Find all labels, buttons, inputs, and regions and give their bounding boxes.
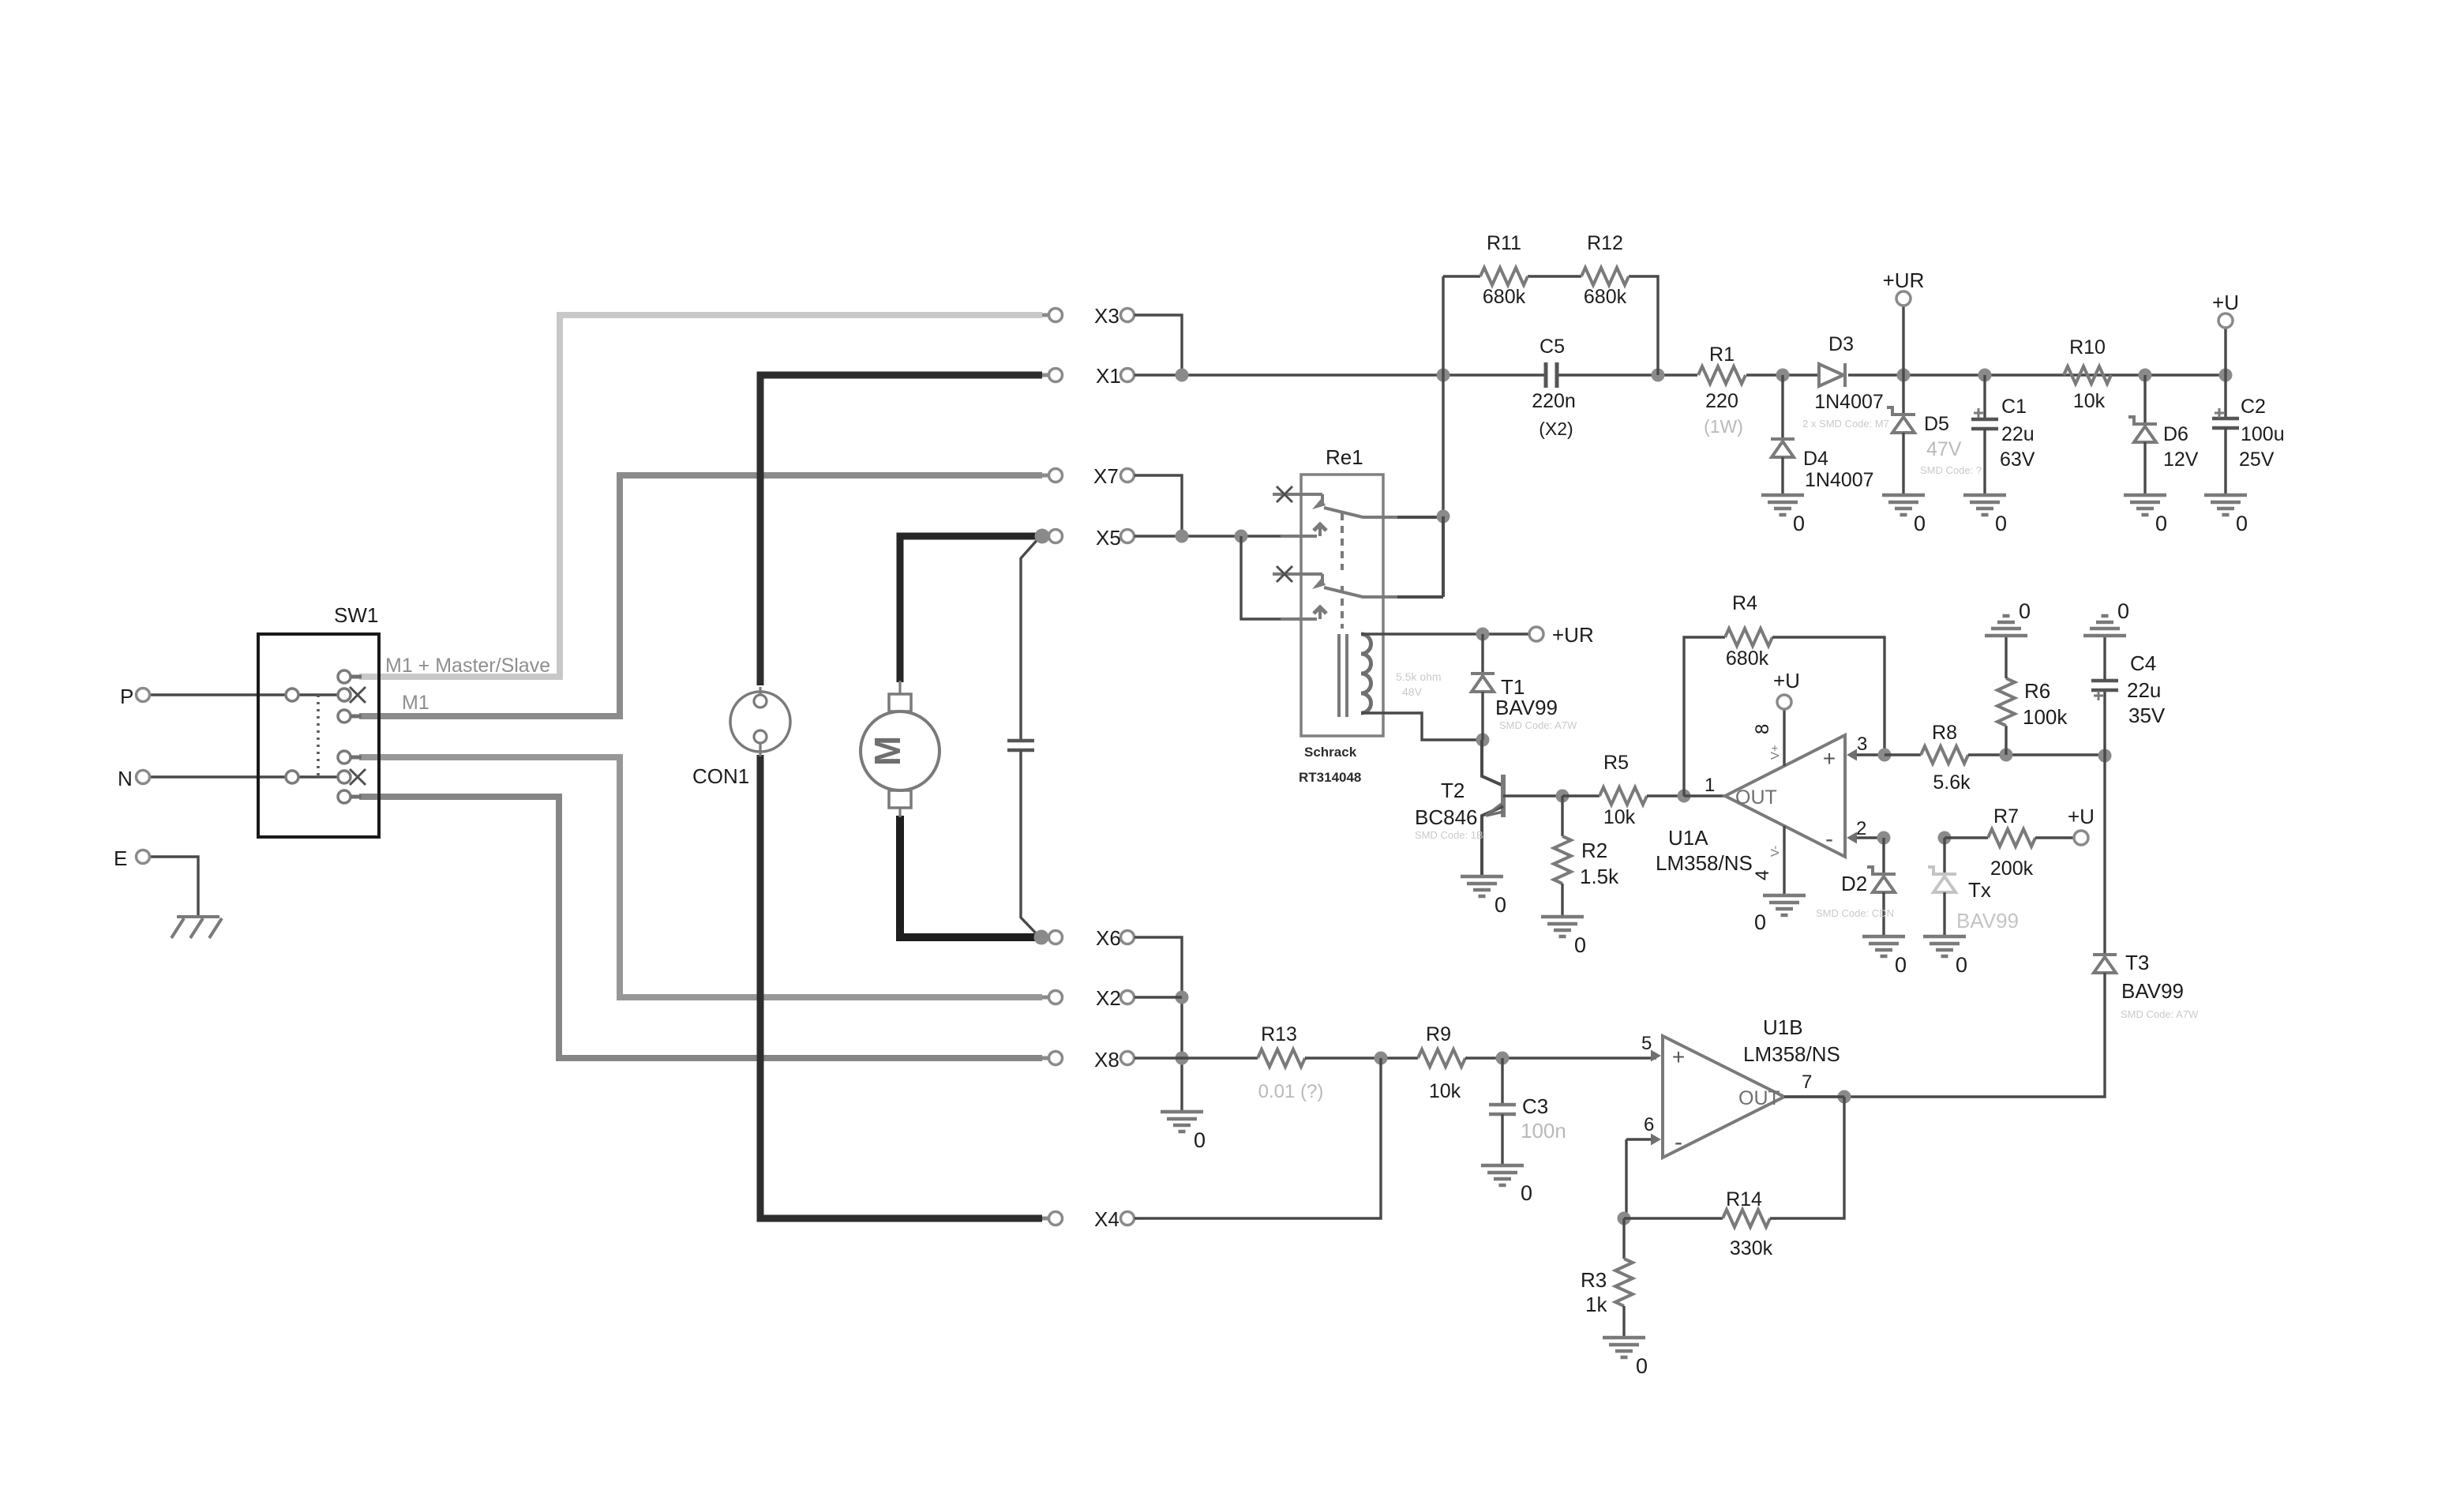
svg-text:C3: C3 [1522, 1094, 1548, 1118]
svg-text:0: 0 [1194, 1128, 1206, 1152]
wire X7 to X5 node [1134, 475, 1182, 536]
terminal circle at y=1340 [1121, 1052, 1134, 1065]
svg-text:X2: X2 [1096, 986, 1121, 1010]
svg-text:BAV99: BAV99 [2121, 979, 2184, 1003]
svg-text:R5: R5 [1603, 752, 1629, 774]
junction blade1 output [1437, 510, 1450, 524]
svg-text:R1: R1 [1709, 343, 1735, 366]
+UR port near relay [1529, 627, 1543, 641]
svg-text:0: 0 [1995, 512, 2007, 535]
svg-text:(1W): (1W) [1704, 416, 1743, 437]
capacitor C5 [1544, 362, 1548, 388]
zener D6 12V [2143, 375, 2146, 424]
port X3 [1042, 313, 1050, 317]
svg-text:100n: 100n [1521, 1119, 1566, 1143]
svg-text:(X2): (X2) [1539, 418, 1573, 439]
resistor R13 [1258, 1049, 1305, 1067]
U1B pin5 arrow [1651, 1050, 1661, 1062]
wire X8 row [1134, 1057, 1258, 1059]
U1A pin3 wire [1851, 753, 1885, 756]
svg-text:2 x SMD Code: M7: 2 x SMD Code: M7 [1802, 418, 1889, 430]
SW1 X mark P row [350, 687, 366, 703]
svg-text:RT314048: RT314048 [1299, 770, 1361, 785]
svg-text:Re1: Re1 [1326, 445, 1363, 469]
relay contact 2 (NC, crossed) [1273, 572, 1322, 576]
svg-text:220: 220 [1705, 390, 1738, 412]
svg-text:R4: R4 [1732, 592, 1757, 614]
svg-text:CON1: CON1 [692, 764, 749, 788]
ground below T2 [1461, 875, 1503, 879]
svg-text:0: 0 [1754, 910, 1766, 934]
capacitor C2 100u/25V [2224, 375, 2226, 418]
svg-text:P: P [120, 685, 133, 708]
terminal P [149, 693, 338, 696]
switch SW1 box [258, 634, 379, 837]
SW1 mechanical link (dotted) [317, 695, 320, 777]
svg-text:D2: D2 [1841, 872, 1867, 895]
svg-text:0: 0 [1914, 512, 1926, 535]
wire X1 main row [1134, 373, 1544, 376]
svg-text:5.6k: 5.6k [1933, 771, 1971, 794]
wire capacitor to X6 node [1021, 750, 1040, 937]
SW1 pole circle N [286, 771, 298, 783]
motor M [898, 681, 901, 694]
svg-text:0: 0 [2155, 512, 2167, 535]
U1B pin6 wire [1626, 1138, 1651, 1140]
svg-text:0: 0 [1495, 893, 1506, 917]
wire R5 to U1A output [1684, 794, 1725, 797]
svg-text:Schrack: Schrack [1304, 745, 1357, 760]
SW1 pole circle P [286, 689, 298, 701]
svg-text:V+: V+ [1768, 745, 1782, 760]
svg-text:BC846: BC846 [1415, 805, 1478, 829]
svg-text:220n: 220n [1532, 390, 1576, 412]
junction R3/R14/pin6 [1618, 1212, 1631, 1225]
relay coil [1361, 634, 1371, 713]
svg-text:BAV99: BAV99 [1956, 909, 2019, 933]
relay pole arrow 1 [1281, 535, 1317, 538]
wire to R11/R12 loop [1443, 275, 1480, 277]
svg-text:0: 0 [1793, 512, 1805, 535]
svg-text:330k: 330k [1730, 1237, 1773, 1259]
wire X5 node down to relay pole 2 [1241, 536, 1281, 619]
wire motor to X6 (black cable) [900, 816, 1038, 937]
svg-text:+U: +U [2212, 291, 2239, 314]
earth ground symbol [177, 915, 219, 918]
svg-text:+UR: +UR [1883, 268, 1925, 292]
wire SW1 to X2 (grey cable) [359, 757, 1042, 997]
svg-text:R7: R7 [1993, 805, 2019, 828]
wire blade2 to blade1 junction [1397, 595, 1443, 599]
svg-text:1N4007: 1N4007 [1805, 469, 1874, 491]
terminal circle at y=679 [1121, 530, 1134, 543]
svg-text:OUT: OUT [1738, 1087, 1780, 1109]
svg-text:SMD Code: 1B: SMD Code: 1B [1415, 829, 1483, 841]
relay mechanical link dashed [1341, 513, 1344, 570]
svg-text:7: 7 [1802, 1072, 1812, 1093]
svg-text:2: 2 [1856, 818, 1866, 839]
svg-text:1.5k: 1.5k [1580, 865, 1619, 888]
svg-text:N: N [118, 767, 133, 790]
svg-text:R11: R11 [1487, 232, 1521, 254]
ground below C3 [1481, 1164, 1524, 1168]
wire motor to X5 (black cable) [900, 536, 1039, 682]
svg-text:X8: X8 [1094, 1048, 1119, 1072]
svg-text:T2: T2 [1441, 779, 1465, 802]
ground below Tx [1923, 935, 1966, 939]
svg-text:Tx: Tx [1968, 878, 1991, 902]
relay coil core [1337, 634, 1341, 717]
resistor R2 1.5k [1561, 796, 1563, 836]
svg-text:SMD Code: A7W: SMD Code: A7W [1499, 719, 1577, 731]
svg-text:10k: 10k [1429, 1080, 1461, 1102]
relay blade 2 [1324, 587, 1397, 597]
svg-text:3: 3 [1857, 734, 1867, 755]
svg-text:D5: D5 [1924, 413, 1949, 435]
svg-text:0: 0 [1895, 953, 1907, 977]
capacitor C3 100n [1501, 1058, 1503, 1105]
svg-text:8: 8 [1752, 724, 1773, 734]
svg-text:BAV99: BAV99 [1495, 696, 1558, 719]
svg-text:5: 5 [1641, 1033, 1652, 1054]
svg-text:R3: R3 [1581, 1268, 1607, 1292]
U1A pin2 wire [1851, 836, 1884, 839]
wire X4 up to R13/R9 node [1134, 1058, 1381, 1218]
svg-text:4: 4 [1752, 870, 1773, 880]
svg-text:R6: R6 [2024, 679, 2050, 703]
resistor R7 200k [1938, 831, 1952, 845]
wire C4 node down through T3 to U1B output [2103, 756, 2106, 955]
svg-text:-: - [1825, 826, 1833, 852]
resistor R1 [1698, 366, 1746, 384]
svg-text:0: 0 [1636, 1354, 1648, 1378]
svg-text:+: + [1823, 746, 1836, 771]
svg-text:X7: X7 [1093, 464, 1119, 488]
resistor R10 [2064, 366, 2111, 384]
wire X6 to X2/X8 link [1134, 937, 1182, 1112]
svg-text:R8: R8 [1932, 722, 1957, 744]
svg-text:35V: 35V [2128, 704, 2166, 727]
svg-text:LM358/NS: LM358/NS [1656, 851, 1753, 875]
terminal circle at y=1187 [1121, 931, 1134, 944]
diode Tx (optional, light grey) [1943, 838, 1945, 874]
svg-text:100k: 100k [2023, 705, 2068, 729]
svg-text:C2: C2 [2241, 396, 2266, 418]
svg-text:SMD Code: ?: SMD Code: ? [1920, 464, 1982, 476]
svg-text:SMD Code: CDN: SMD Code: CDN [1816, 907, 1894, 919]
contact stubs to cable wires [351, 675, 362, 679]
svg-text:680k: 680k [1584, 286, 1627, 308]
svg-text:+: + [1672, 1045, 1685, 1069]
terminal N [149, 775, 338, 778]
svg-text:V-: V- [1768, 846, 1782, 857]
svg-text:M1 + Master/Slave: M1 + Master/Slave [385, 655, 550, 677]
svg-text:0.01 (?): 0.01 (?) [1258, 1081, 1324, 1102]
svg-text:22u: 22u [2127, 678, 2161, 702]
svg-text:0: 0 [2236, 512, 2248, 535]
wire X5 node to capacitor [1021, 536, 1041, 741]
relay pole arrow 2 [1281, 617, 1317, 621]
svg-text:25V: 25V [2239, 448, 2275, 471]
svg-text:R14: R14 [1726, 1188, 1762, 1210]
ground below D2 [1862, 935, 1905, 939]
wire SW1 to X8 (grey cable) [359, 797, 1042, 1058]
resistor R5 10k [1562, 794, 1600, 797]
svg-text:0: 0 [2117, 599, 2129, 623]
svg-text:0: 0 [1574, 933, 1586, 957]
relay contact 1 (NC, crossed) [1273, 493, 1322, 496]
zener D5 [1902, 375, 1904, 415]
svg-text:X4: X4 [1094, 1207, 1119, 1231]
svg-text:1k: 1k [1585, 1293, 1607, 1316]
wire M1 (grey cable from SW1 to X7) [359, 475, 1042, 716]
wire M1 + Master/Slave (light grey cable from SW1 to X3) [359, 315, 1042, 677]
diode D4 1N4007 [1781, 375, 1783, 439]
resistor R8 5.6k [1885, 753, 1921, 756]
terminal circle at y=399 [1121, 309, 1134, 322]
port X7 [1042, 474, 1050, 478]
U1A pin 4 ground [1783, 826, 1785, 895]
svg-text:0: 0 [1956, 953, 1967, 977]
resistor R11 [1480, 268, 1528, 285]
svg-text:100u: 100u [2241, 423, 2285, 445]
wire X3 to X1 node [1134, 315, 1182, 375]
vertical from R11 loop through X1 row to relay [1442, 276, 1444, 516]
resistor R14 330k [1624, 1217, 1723, 1219]
svg-text:R13: R13 [1261, 1023, 1297, 1045]
svg-text:SW1: SW1 [334, 603, 378, 627]
ground below R3 [1603, 1336, 1645, 1340]
svg-text:C5: C5 [1540, 336, 1565, 358]
connector CON1 [730, 692, 790, 752]
port X2 [1042, 996, 1050, 1000]
svg-text:1N4007: 1N4007 [1814, 391, 1884, 413]
junction dots on main row [1176, 369, 1189, 382]
svg-text:R2: R2 [1581, 839, 1607, 862]
wire X2 row stub [1134, 996, 1182, 998]
terminal circle at y=602 [1121, 469, 1134, 482]
svg-text:X3: X3 [1094, 304, 1119, 328]
svg-text:10k: 10k [1603, 806, 1636, 828]
svg-text:+UR: +UR [1552, 623, 1594, 647]
svg-text:+U: +U [2068, 805, 2095, 828]
svg-text:D4: D4 [1803, 448, 1828, 470]
resistor R3 1k [1622, 1218, 1625, 1259]
+U supply port [2224, 328, 2226, 375]
relay blade 1 [1324, 508, 1397, 517]
terminal E [149, 857, 198, 917]
svg-text:D6: D6 [2163, 423, 2188, 445]
resistor R4 680k [1684, 637, 1725, 796]
svg-text:U1B: U1B [1763, 1015, 1803, 1039]
svg-text:E: E [114, 846, 127, 870]
svg-text:0: 0 [2019, 599, 2031, 623]
svg-text:680k: 680k [1483, 286, 1526, 308]
wire X5 row to relay [1134, 535, 1281, 537]
U1A pin 8 +U [1783, 708, 1785, 766]
svg-text:680k: 680k [1726, 647, 1769, 670]
svg-text:R12: R12 [1587, 232, 1623, 254]
svg-text:U1A: U1A [1668, 826, 1708, 850]
wire CON1 to X4 (black cable) [760, 755, 1042, 1218]
wire coil top to +UR [1361, 632, 1529, 635]
ground below X8 link [1161, 1110, 1203, 1114]
ground below C2 [2204, 494, 2247, 497]
inverted ground above C4 [2083, 634, 2126, 638]
capacitor C4 22u/35V [2103, 690, 2106, 756]
svg-text:+U: +U [1773, 669, 1800, 692]
ground below C1 [1963, 494, 2006, 497]
wire CON1 to X1 (black cable) [760, 375, 1042, 685]
svg-text:R9: R9 [1426, 1023, 1451, 1045]
svg-text:X5: X5 [1096, 526, 1121, 550]
svg-text:22u: 22u [2001, 423, 2035, 445]
svg-text:OUT: OUT [1735, 786, 1777, 809]
port X1 [1042, 373, 1050, 377]
svg-text:48V: 48V [1402, 685, 1423, 698]
port X8 [1042, 1057, 1050, 1060]
svg-text:D3: D3 [1828, 333, 1854, 355]
svg-text:47V: 47V [1926, 438, 1962, 460]
svg-text:5.5k ohm: 5.5k ohm [1396, 670, 1442, 683]
ground below D6 [2124, 494, 2166, 497]
ground below D5 [1882, 494, 1925, 497]
SW1 contact circles [338, 670, 351, 683]
svg-text:C1: C1 [2001, 396, 2027, 418]
+U port right of R7 [2074, 831, 2088, 845]
SW1 X mark N row [350, 769, 366, 785]
svg-text:63V: 63V [2000, 448, 2035, 471]
svg-text:0: 0 [1521, 1181, 1532, 1205]
svg-text:6: 6 [1644, 1114, 1654, 1135]
diode D3 1N4007 [1843, 363, 1847, 387]
op-amp U1A LM358/NS [1725, 735, 1845, 857]
svg-text:10k: 10k [2073, 390, 2106, 412]
ground below D4 [1761, 494, 1804, 497]
motor capacitor [1007, 739, 1034, 743]
svg-text:1: 1 [1705, 775, 1715, 796]
wire coil bottom to T1 bottom node [1361, 713, 1483, 740]
terminal circle at y=1543 [1121, 1212, 1134, 1225]
op-amp U1B LM358/NS [1663, 1036, 1784, 1158]
inverted ground above R6 [1985, 634, 2027, 638]
svg-text:M: M [867, 736, 908, 766]
U1B output wire [1784, 1095, 1844, 1098]
svg-text:X6: X6 [1096, 926, 1121, 950]
port X4 [1042, 1217, 1050, 1221]
svg-text:LM358/NS: LM358/NS [1743, 1042, 1840, 1066]
terminal circle at y=1263 [1121, 991, 1134, 1004]
resistor R9 10k [1418, 1049, 1465, 1067]
ground below R2 [1541, 915, 1584, 919]
resistor R6 100k [2005, 726, 2007, 755]
capacitor C1 22u/63V [1983, 375, 1986, 419]
relay Re1 box [1301, 475, 1383, 736]
port X6 [1034, 930, 1049, 945]
svg-text:R10: R10 [2069, 336, 2106, 358]
transistor T2 BC846 [1482, 740, 1503, 786]
svg-text:M1: M1 [402, 692, 429, 714]
+UR supply port [1902, 306, 1904, 375]
svg-text:X1: X1 [1096, 364, 1121, 388]
svg-text:SMD Code: A7W: SMD Code: A7W [2121, 1008, 2199, 1020]
port X5 [1035, 529, 1050, 544]
svg-text:C4: C4 [2130, 651, 2156, 675]
zener D2 [1882, 838, 1885, 874]
svg-text:-: - [1675, 1129, 1682, 1155]
wire T2 base to R5 node [1503, 794, 1562, 797]
resistor R12 [1581, 268, 1629, 285]
svg-text:200k: 200k [1990, 858, 2034, 880]
svg-text:T3: T3 [2125, 951, 2149, 974]
diode T1 BAV99 [1481, 634, 1483, 674]
svg-text:12V: 12V [2163, 448, 2199, 471]
terminal circle at y=475 [1121, 369, 1134, 382]
